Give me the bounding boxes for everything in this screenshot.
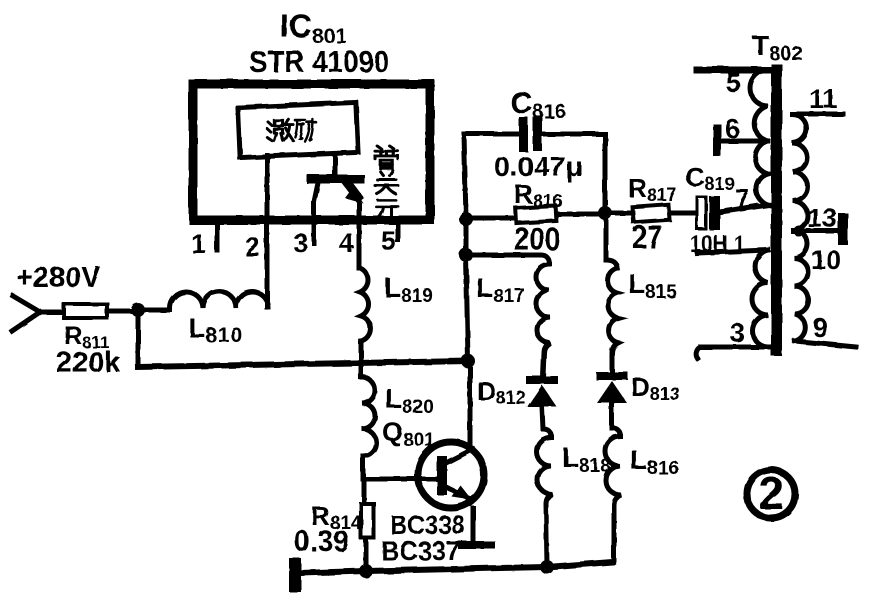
svg-text:13: 13 [807,203,837,233]
svg-text:3: 3 [730,318,745,348]
svg-text:10: 10 [811,245,841,275]
svg-text:220k: 220k [56,347,121,379]
svg-text:0.047μ: 0.047μ [494,151,583,182]
svg-text:5: 5 [381,226,396,256]
svg-text:27: 27 [632,219,662,255]
svg-text:4: 4 [339,228,354,258]
svg-text:9: 9 [813,313,828,343]
svg-text:200: 200 [514,221,560,257]
svg-text:+280V: +280V [16,262,101,294]
svg-text:1: 1 [191,229,206,259]
svg-text:BC337: BC337 [381,536,460,566]
svg-text:2: 2 [759,468,784,519]
svg-text:0.39: 0.39 [294,525,349,558]
svg-text:11: 11 [809,84,838,114]
svg-text:6: 6 [725,114,740,144]
svg-text:3: 3 [293,228,308,258]
svg-text:2: 2 [245,232,260,262]
svg-text:5: 5 [726,68,741,98]
svg-text:STR 41090: STR 41090 [249,44,389,79]
svg-text:10H 1: 10H 1 [690,231,745,258]
svg-text:7: 7 [735,184,750,214]
